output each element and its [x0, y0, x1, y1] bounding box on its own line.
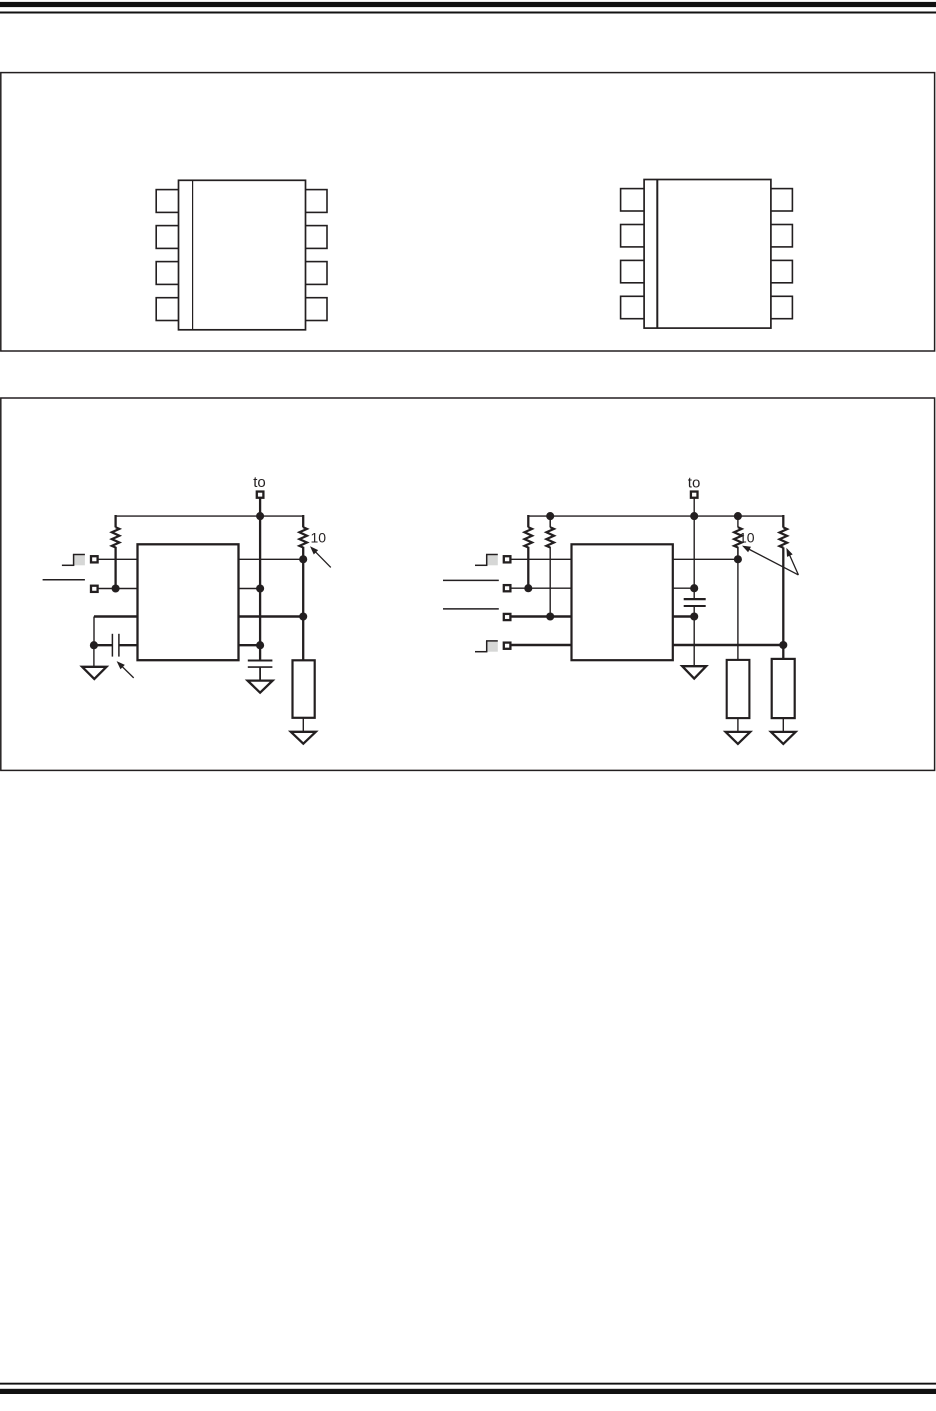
IC package U1 left pin 1: [156, 190, 179, 213]
node: R1 to input-2 wire junction: [112, 584, 120, 592]
wire IC pin8 to R6 column: [673, 558, 738, 560]
IC block U2: [572, 544, 673, 660]
resistor R6 top segment: [737, 516, 739, 527]
node: pin6 wire / right column junction: [299, 612, 307, 620]
IC package U2 left pin 1: [621, 189, 645, 211]
wire input1 terminal to IC pin1: [510, 558, 571, 560]
page bottom thin rule: [0, 1383, 936, 1385]
application circuits frame: [1, 398, 935, 770]
resistor R1 zigzag: [112, 527, 120, 547]
wire pin8 node down to resistor box: [737, 559, 739, 660]
node: pin7 / VDD column junction: [256, 584, 264, 592]
input 4 terminal: [504, 643, 511, 649]
node: R4 / input-2 junction: [524, 584, 532, 592]
bypass capacitor C2 plates: [248, 660, 273, 662]
wire VDD column pin7 to pin5 segment: [259, 516, 261, 660]
node: capacitor C1 left junction: [90, 641, 98, 649]
node: pin5 / bypass cap junction: [256, 641, 264, 649]
wire C2 to ground: [259, 667, 261, 681]
wire R2 bottom to node: [302, 547, 304, 560]
page bottom thick rule: [0, 1389, 936, 1394]
wire R2 node down to resistor box: [302, 559, 304, 661]
wire input2 terminal to IC pin2: [98, 588, 138, 590]
page top thick rule: [0, 2, 936, 7]
svg-text:to: to: [253, 474, 266, 491]
node: pin6 / bypass cap bottom junction: [690, 612, 698, 620]
capacitor C1 left lead: [94, 644, 112, 646]
wire R6 box to ground: [737, 718, 739, 732]
wire C1 node to ground: [93, 645, 95, 667]
resistor R4 zigzag: [525, 527, 533, 547]
IC package U1 left pin 3: [156, 262, 179, 285]
wire R5 bottom to input3 node: [549, 547, 551, 617]
arrow pointing at R2: [310, 546, 318, 554]
wire cap bottom to ground: [693, 606, 695, 666]
input 3 terminal: [504, 614, 511, 620]
wire R1 bottom to pin2 node: [114, 547, 116, 589]
resistor R2 zigzag: [299, 527, 307, 547]
right circuit: VDD top rail wire: [528, 515, 783, 517]
pull-down resistor box R3: [293, 660, 315, 718]
node: pin5 / R7 junction: [779, 641, 787, 649]
node: rail / R6 junction: [734, 512, 742, 520]
IC package U1 right pin 8: [305, 190, 327, 213]
node: pin7 / bypass cap top junction: [690, 584, 698, 592]
resistor R5 zigzag: [546, 527, 554, 547]
wire R7 down through pin5 node to box: [782, 547, 784, 659]
pull-down resistor box R7b: [772, 659, 795, 718]
arrow pointing at C1: [117, 661, 125, 669]
arrow pointing at R7: [786, 548, 792, 557]
resistor R2 pull-up (top segment): [302, 515, 304, 527]
right circuit: VDD terminal: [691, 492, 698, 498]
pinout figure frame: [1, 73, 935, 351]
capacitor C1 plates: [111, 634, 113, 657]
left circuit: VDD terminal: [257, 492, 264, 498]
wire IC pin6 (thick) to cap bottom node: [673, 615, 694, 617]
node: R2 / pin8 junction: [299, 555, 307, 563]
IC package U2 body: [644, 180, 771, 329]
ground under R7 box: [771, 732, 796, 744]
IC package U2 left pin 2: [621, 225, 645, 247]
resistor R7 top segment: [782, 515, 784, 528]
IC package U2 left pin 4: [621, 296, 645, 318]
IC package U2 right pin 5: [770, 296, 792, 318]
wire input1 terminal to IC pin1: [98, 558, 138, 560]
input 2 terminal: [91, 586, 98, 592]
wire IC pin5 (thick) to VDD column: [239, 644, 261, 646]
resistor R5 top segment: [549, 515, 551, 527]
arrow pointing at R6: [742, 546, 751, 553]
IC package U2 pin-1 side band: [656, 180, 658, 328]
input 1 step waveform symbol: [487, 555, 498, 565]
IC package U2 right pin 7: [770, 225, 792, 247]
IC package U1 right pin 5: [305, 298, 327, 321]
node: R5 / input-3 junction: [546, 612, 554, 620]
svg-text:10: 10: [311, 529, 327, 545]
wire R6 zigzag to pin8 node: [737, 547, 739, 560]
wire input3 terminal to IC pin3 (thick): [510, 615, 571, 617]
node: rail / R5 junction: [546, 512, 554, 520]
bypass capacitor C3 plates: [684, 598, 706, 600]
capacitor C1 right lead to IC pin4: [119, 644, 137, 646]
ground under R6 box: [726, 732, 751, 744]
wire VDD terminal down: [693, 498, 695, 599]
IC package U1 body: [179, 180, 306, 329]
wire R4 bottom to input2 node: [527, 547, 529, 588]
wire VDD terminal to rail: [259, 498, 261, 517]
input 1 terminal: [504, 556, 511, 562]
svg-text:10: 10: [739, 530, 755, 546]
node: pin8 / R6 junction: [734, 555, 742, 563]
pull-down resistor box R6b: [727, 660, 750, 718]
ground under VDD column: [682, 666, 706, 678]
wire R7 box to ground: [782, 718, 784, 732]
wire IC pin5 (thick) to R7 column: [673, 644, 784, 646]
wire input2 terminal to IC pin2: [510, 587, 571, 589]
resistor R6 zigzag: [734, 527, 742, 547]
node: rail / VDD tap junction: [256, 512, 264, 520]
ground under R3 box: [291, 732, 316, 744]
wire IC pin3 (thick) to bypass branch: [94, 615, 138, 617]
IC package U1 right pin 7: [305, 226, 327, 249]
IC package U2 left pin 3: [621, 260, 645, 282]
IC package U1 pin-1 side band: [192, 180, 194, 329]
IC package U1 right pin 6: [305, 262, 327, 285]
input 2 signal line: [43, 579, 85, 581]
IC package U2 right pin 6: [770, 260, 792, 282]
left circuit: VDD top rail wire: [116, 515, 304, 517]
IC package U1 left pin 2: [156, 226, 179, 249]
input 4 step waveform symbol: [487, 642, 498, 652]
wire R3 box to ground: [302, 718, 304, 732]
wire IC pin8 to R2 node: [239, 558, 304, 560]
resistor R7 zigzag: [780, 527, 788, 547]
input 2 terminal: [504, 585, 511, 591]
wire IC pin7 to VDD column: [673, 587, 694, 589]
svg-text:to: to: [688, 474, 701, 491]
page top thin rule: [0, 12, 936, 14]
wire input4 terminal to IC pin4 (thick): [510, 644, 571, 646]
IC package U2 right pin 8: [770, 189, 792, 211]
resistor R1 pull-up (top segment): [114, 515, 116, 527]
wire IC pin6 (thick) to right column: [239, 615, 304, 617]
ground under C1: [82, 667, 106, 679]
node: rail / VDD tap junction: [690, 512, 698, 520]
IC block U1: [138, 544, 239, 660]
ground under C2: [248, 681, 273, 693]
input 1 step waveform symbol: [74, 555, 85, 565]
input 2 signal line: [443, 579, 499, 581]
resistor R4 top segment: [527, 515, 529, 527]
input 3 signal line: [443, 608, 499, 610]
wire IC pin7 to VDD column: [239, 588, 261, 590]
input 1 terminal: [91, 556, 98, 562]
wire pin3 branch down to capacitor node: [93, 617, 95, 646]
IC package U1 left pin 4: [156, 298, 179, 321]
